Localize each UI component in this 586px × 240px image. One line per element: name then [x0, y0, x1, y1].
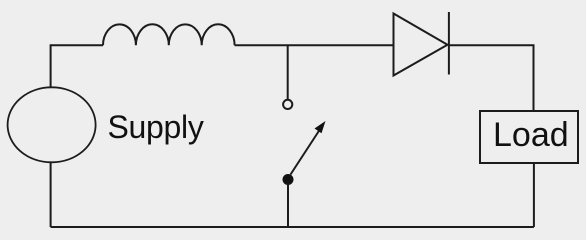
wire junction to switch top terminal	[287, 45, 289, 99]
wire top-left corner (supply top to inductor)	[51, 45, 103, 87]
switch open terminal	[283, 100, 292, 109]
switch arm arrow	[291, 129, 321, 175]
switch pivot dot	[283, 174, 294, 185]
wire switch to bottom rail	[287, 183, 289, 227]
wire supply bottom to bottom rail	[50, 163, 52, 228]
wire diode to top-right corner and down to load	[449, 45, 534, 111]
supply source circle	[8, 87, 96, 162]
diode D1 triangle	[394, 14, 448, 76]
wire load to bottom rail	[533, 163, 535, 227]
bottom rail	[51, 226, 534, 228]
wire inductor to diode	[235, 44, 394, 46]
svg-text:Supply: Supply	[108, 109, 204, 145]
diode cathode bar	[448, 12, 450, 75]
inductor L1	[103, 24, 235, 45]
load box	[480, 111, 578, 163]
svg-text:Load: Load	[493, 116, 569, 154]
